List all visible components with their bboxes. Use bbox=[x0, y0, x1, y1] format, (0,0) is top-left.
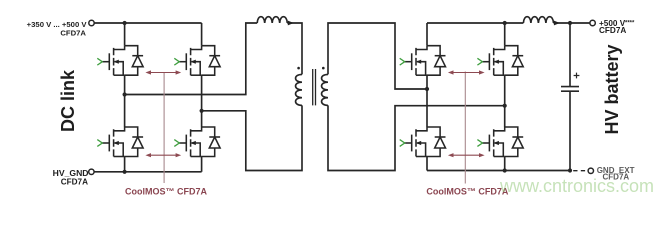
diode D3 (body diode of Q3) bbox=[125, 127, 144, 157]
svg-text:CFD7A: CFD7A bbox=[60, 29, 86, 38]
wire Q5 drain stub bbox=[426, 23, 428, 46]
transistor Q1 (CoolMOS CFD7A, left bridge high-side left) bbox=[97, 46, 124, 75]
wire inductor to transformer primary bbox=[287, 23, 302, 74]
wire Q2 source to Q4 drain bbox=[201, 75, 203, 127]
callout arrow right bridge bottom pair bbox=[448, 153, 485, 157]
diode D6 (body diode of Q6) bbox=[505, 46, 524, 75]
svg-text:www.cntronics.com: www.cntronics.com bbox=[499, 176, 654, 196]
wire secondary bottom to node B' bbox=[328, 105, 505, 170]
diode D8 (body diode of Q8) bbox=[505, 127, 524, 157]
svg-text:CoolMOS™ CFD7A: CoolMOS™ CFD7A bbox=[125, 187, 207, 197]
current direction arrow bbox=[288, 21, 294, 26]
primary phase dot bbox=[297, 67, 300, 70]
wire secondary top to node A' bbox=[328, 23, 427, 89]
wire Q5 source to Q7 drain bbox=[426, 75, 428, 127]
svg-text:CFD7A: CFD7A bbox=[61, 177, 88, 186]
diode D1 (body diode of Q1) bbox=[125, 46, 144, 75]
transistor Q4 (left bridge low-side right) bbox=[174, 127, 201, 157]
junction top rail / Q6 drain bbox=[503, 21, 507, 25]
wire bottom rail left bridge bbox=[94, 171, 202, 173]
wire Q2 drain stub bbox=[201, 23, 203, 46]
callout arrow left bridge bottom pair bbox=[145, 153, 181, 157]
transformer T1 core bbox=[313, 69, 316, 105]
transistor Q3 (left bridge low-side left) bbox=[97, 127, 124, 157]
junction bottom rail / Q3 source bbox=[123, 170, 127, 174]
transistor Q6 (right bridge high-side right) bbox=[477, 46, 504, 75]
callout arrow right bridge top pair bbox=[448, 70, 485, 74]
transistor Q5 (right bridge high-side left) bbox=[400, 46, 427, 75]
wire bottom rail right bridge bbox=[427, 170, 570, 172]
terminal HV_GND bbox=[89, 169, 94, 174]
svg-text:CFD7A: CFD7A bbox=[599, 26, 626, 35]
junction node B (right leg midpoint) bbox=[200, 109, 204, 113]
junction node A' (right bridge left leg midpoint) bbox=[425, 87, 429, 91]
wire primary return to node B bbox=[202, 105, 302, 170]
wire capacitor top lead bbox=[569, 23, 571, 87]
terminal +500 V bbox=[590, 20, 595, 25]
wire node A to resonant inductor bbox=[125, 23, 258, 95]
diode D7 (body diode of Q7) bbox=[427, 127, 446, 157]
wire capacitor bottom lead bbox=[569, 91, 571, 170]
wire Q3 source to bottom rail bbox=[124, 157, 126, 172]
svg-text:HV battery: HV battery bbox=[602, 44, 622, 134]
transformer T1 secondary winding bbox=[322, 74, 328, 105]
wire dashed to GND_EXT terminal bbox=[573, 170, 585, 172]
transformer T1 primary winding bbox=[296, 74, 302, 105]
callout arrow left bridge top pair bbox=[145, 70, 181, 74]
junction output rail / capacitor bbox=[568, 21, 572, 25]
capacitor C1 (HV battery) bbox=[561, 87, 579, 92]
wire top rail left bridge bbox=[94, 22, 201, 24]
inductor Lr (resonant inductor) bbox=[257, 17, 287, 23]
callout line right bridge (CoolMOS) bbox=[464, 72, 466, 184]
terminal GND_EXT bbox=[588, 168, 593, 173]
transistor Q8 (right bridge low-side right) bbox=[477, 127, 504, 157]
junction node A (left leg midpoint) bbox=[123, 92, 127, 96]
junction top rail / Q1 drain bbox=[123, 21, 127, 25]
wire Q7 source to bottom rail bbox=[426, 157, 428, 171]
callout line left bridge (CoolMOS) bbox=[163, 73, 165, 184]
wire Q1 drain stub bbox=[124, 23, 126, 46]
svg-text:HV_GND: HV_GND bbox=[53, 168, 89, 178]
svg-text:DC link: DC link bbox=[58, 69, 78, 132]
inductor Lo (output filter inductor) bbox=[523, 17, 553, 23]
svg-text:****: **** bbox=[625, 20, 635, 26]
wire Q8 source to bottom rail bbox=[504, 157, 506, 171]
terminal +350V...+500V (DC link +) bbox=[89, 20, 94, 25]
transistor Q2 (left bridge high-side right) bbox=[174, 46, 201, 75]
wire Q6 source to Q8 drain bbox=[504, 75, 506, 127]
wire Q6 drain stub bbox=[504, 23, 506, 46]
secondary phase dot bbox=[322, 67, 325, 70]
wire Q1 source to Q3 drain bbox=[124, 75, 126, 127]
diode D2 (body diode of Q2) bbox=[202, 46, 221, 75]
svg-text:CoolMOS™ CFD7A: CoolMOS™ CFD7A bbox=[426, 187, 508, 197]
wire Q4 source to bottom rail bbox=[201, 157, 203, 172]
junction bottom rail / Q8 source bbox=[503, 168, 507, 172]
transistor Q7 (right bridge low-side left) bbox=[400, 127, 427, 157]
junction bottom rail / capacitor bbox=[568, 168, 572, 172]
junction node B' (right bridge right leg midpoint) bbox=[503, 104, 507, 108]
wire top rail right bridge bbox=[427, 22, 523, 24]
diode D5 (body diode of Q5) bbox=[427, 46, 446, 75]
capacitor polarity + bbox=[574, 73, 580, 79]
svg-text:+350 V ... +500 V: +350 V ... +500 V bbox=[27, 20, 88, 29]
wire inductor to +500V terminal bbox=[554, 22, 590, 24]
output current arrow bbox=[554, 21, 560, 26]
diode D4 (body diode of Q4) bbox=[202, 127, 221, 157]
